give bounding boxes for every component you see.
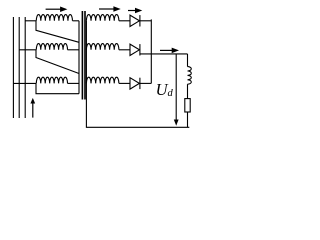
svg-text:Ud: Ud bbox=[156, 80, 174, 99]
